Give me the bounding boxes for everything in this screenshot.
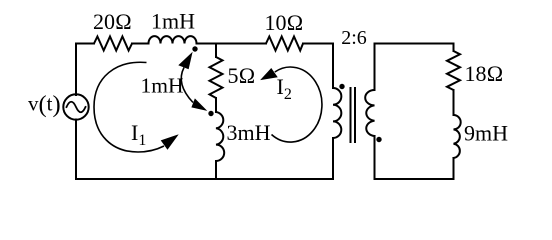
wire: secondary loop bottom rail: [375, 178, 454, 180]
wire: middle branch upper (node to 5Ω): [215, 44, 217, 58]
node dot: transformer primary dotted terminal: [339, 84, 344, 89]
arrowhead of I2: [262, 69, 277, 79]
node dot: 3mH dotted terminal: [208, 111, 213, 116]
transformer primary coil (3 humps bulging right): [333, 88, 341, 138]
mutual coupling 1mH arc: [181, 68, 193, 103]
node dot: top 1mH dotted terminal: [192, 46, 197, 51]
resistor R 5Ω zigzag: [210, 57, 223, 98]
wire: right branch upper: [453, 44, 455, 52]
node dot: transformer secondary dotted terminal: [376, 137, 381, 142]
svg-text:I2: I2: [277, 74, 292, 103]
svg-text:3mH: 3mH: [227, 120, 271, 145]
mesh current I2 arc: [272, 67, 322, 142]
source v(t) sine symbol: [67, 102, 86, 113]
wire: middle branch between 5Ω and 3mH: [215, 98, 217, 112]
source v(t) circle: [63, 94, 88, 119]
inductor L 1mH (top, 4 humps): [149, 36, 197, 43]
wire: top rail between 20Ω and 1mH: [132, 43, 149, 45]
resistor R 10Ω zigzag: [266, 37, 303, 51]
arrowhead of mutual arc, bottom (points to 3mH dot): [192, 100, 205, 110]
svg-text:5Ω: 5Ω: [228, 63, 256, 88]
svg-text:v(t): v(t): [28, 91, 61, 118]
wire: primary branch upper: [332, 44, 334, 89]
transformer core line 2: [354, 88, 356, 142]
wire: top rail from center node to 10Ω: [216, 43, 266, 45]
arrowhead of I1: [162, 136, 177, 149]
wire: bottom rail of main circuit: [76, 178, 333, 180]
wire: top rail left segment: [76, 43, 94, 45]
wire: secondary branch lower: [374, 136, 376, 179]
svg-text:20Ω: 20Ω: [93, 9, 132, 34]
transformer secondary coil (3 humps bulging left): [365, 90, 374, 136]
svg-text:9mH: 9mH: [464, 121, 508, 146]
transformer core line 1: [350, 88, 352, 142]
wire: right branch between 18Ω and 9mH: [453, 90, 455, 115]
wire: left branch lower: [75, 120, 77, 180]
wire: right branch lower: [453, 158, 455, 179]
wire: middle branch lower: [215, 161, 217, 179]
wire: left branch with source, upper: [75, 44, 77, 96]
svg-text:2:6: 2:6: [341, 27, 367, 49]
wire: top rail from 10Ω to primary corner: [303, 43, 333, 45]
svg-text:10Ω: 10Ω: [265, 10, 304, 35]
arrowhead of mutual arc, top (points to 1mH dot): [179, 54, 191, 69]
wire: secondary loop top rail: [375, 43, 454, 45]
wire: secondary branch upper: [374, 44, 376, 91]
mesh current I1 arc: [94, 62, 164, 152]
resistor R 18Ω zigzag: [447, 51, 460, 90]
svg-text:1mH: 1mH: [141, 74, 184, 98]
svg-text:I1: I1: [131, 120, 146, 149]
wire: primary branch lower: [332, 138, 334, 179]
inductor L 3mH (3 humps bulging right): [216, 112, 224, 161]
svg-text:18Ω: 18Ω: [465, 61, 504, 86]
resistor R 20Ω zigzag: [94, 37, 132, 51]
inductor L 9mH (3 humps bulging right): [454, 115, 461, 158]
wire: top rail from 1mH to center node: [197, 43, 217, 45]
svg-text:1mH: 1mH: [151, 9, 195, 34]
